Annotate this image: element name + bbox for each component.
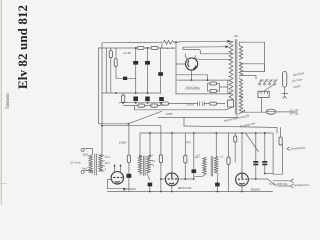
svg-text:Netzanschl.: Netzanschl. — [162, 47, 176, 50]
wire vertical x160.5 — [160, 48, 162, 93]
tube V4 grid dashes — [238, 178, 247, 180]
drop x265 — [264, 133, 266, 161]
wire R15 — [228, 133, 230, 192]
voltage selector taps — [260, 80, 278, 83]
tube V4 cathode arc — [239, 182, 244, 185]
capacitor C1 series — [123, 77, 127, 80]
wire B end riser — [158, 44, 162, 49]
terminal line 1 — [273, 180, 290, 182]
wire between boxes — [144, 47, 151, 49]
tube V2 grid dashes — [113, 177, 122, 179]
node dots — [184, 178, 186, 180]
transformer T4 winding bottom diag taps — [239, 97, 244, 115]
bus dots — [149, 191, 151, 193]
wire y94 line — [176, 93, 232, 95]
node dot — [147, 47, 149, 49]
transformer T2 left winding — [203, 158, 207, 174]
capacitor C12 pair b — [253, 164, 258, 166]
terminal line 2 — [278, 185, 291, 187]
tube pin left — [186, 54, 188, 60]
drop x216 — [215, 133, 217, 156]
resistor R12 x130 — [127, 155, 130, 163]
wire fuse line left — [242, 111, 266, 113]
bus left corner down — [139, 133, 141, 157]
capacitor C8 — [127, 174, 132, 178]
transformer T4 secondary winding mid — [239, 62, 243, 76]
wire tube3 anode line — [248, 178, 267, 180]
tube V2 pins up — [115, 165, 121, 172]
transformer T1 left winding — [138, 157, 142, 173]
svg-text:Fernh. 2000 Ohm: Fernh. 2000 Ohm — [268, 183, 288, 186]
wire arrow line to transformer — [180, 40, 231, 43]
Tin taps — [99, 155, 105, 171]
transformer T4 primary bottom lead — [226, 107, 233, 110]
wire left vertical V2 — [99, 43, 102, 155]
barretter lamp — [283, 72, 287, 88]
drop x172 — [171, 133, 173, 173]
wire secondary top tap — [239, 42, 264, 45]
wire diagonal V1 to heater line — [128, 111, 162, 124]
label under tube left — [123, 188, 125, 190]
T1 tap stubs — [150, 161, 153, 165]
svg-text:40/4: 40/4 — [105, 156, 111, 159]
wire vertical x106.3 — [105, 48, 107, 93]
wire line y126 — [184, 126, 277, 133]
wire C11 — [216, 186, 218, 191]
input terminal bottom — [81, 171, 92, 174]
wire R12 bottom with cap — [128, 163, 130, 192]
tube V4 output — [236, 173, 249, 186]
svg-text:1W1: 1W1 — [234, 35, 240, 38]
wire stubs R5 — [122, 93, 124, 95]
resistor R17 series on y103.5 — [162, 102, 169, 105]
tube V3 grid dashes — [168, 178, 177, 180]
tube V3 cathode drop — [171, 186, 173, 192]
capacitor C13 pair b — [262, 164, 267, 166]
transformer T4 primary winding — [229, 42, 233, 108]
transformer T4 primary top lead — [231, 41, 233, 43]
resistor R4 — [114, 59, 117, 67]
wire secondary taps to selector — [241, 63, 265, 65]
tube V3 cathode arc — [169, 182, 174, 185]
node dot — [175, 41, 177, 43]
drop x235 with resistor — [234, 133, 236, 162]
transformer Tin left winding — [89, 155, 92, 173]
page fold mark — [0, 182, 7, 184]
transformer T2 core — [211, 157, 213, 177]
capacitor C6 — [145, 97, 150, 102]
resistor R14 x185 — [184, 155, 187, 163]
T2 leads — [203, 156, 218, 182]
wire line y109.8 — [135, 106, 227, 110]
wire y80 line — [177, 79, 229, 81]
resistor R10 on y103.5 — [210, 102, 217, 105]
tube V1 rectifier — [186, 58, 198, 70]
wire vertical x147.5 — [147, 48, 149, 93]
svg-text:Lautsprecher: Lautsprecher — [293, 183, 310, 187]
wire vertical x116 with resistor — [115, 48, 117, 78]
capacitor C5 — [133, 97, 138, 102]
selector box — [258, 91, 269, 97]
input terminal top — [81, 149, 92, 155]
svg-text:1000: 1000 — [166, 112, 173, 116]
wire vertical to selector — [264, 42, 266, 71]
transformer Tin core — [95, 154, 97, 175]
winding section box — [228, 100, 234, 107]
T2 left loop wire — [195, 157, 203, 176]
wire loop right verticals — [265, 133, 283, 174]
capacitor C10 on x194 — [192, 169, 197, 173]
wire selector to fuse — [261, 98, 263, 113]
wire y126 left riser — [183, 118, 185, 126]
svg-text:(M): (M) — [83, 153, 88, 157]
wire R13 to tube2 — [161, 178, 165, 180]
svg-text:(se): (se) — [186, 140, 191, 144]
tube cathode drop — [191, 70, 193, 80]
transformer T1 core — [144, 156, 146, 176]
svg-text:REN904: REN904 — [123, 187, 136, 191]
transformer Tin right winding — [99, 155, 102, 171]
wire tap line y59 — [195, 58, 232, 59]
wire R16 top — [280, 128, 282, 138]
svg-text:1:1: 1:1 — [220, 155, 224, 159]
wire y103.5 link — [158, 104, 226, 106]
drop x193.8 — [193, 133, 195, 169]
svg-text:(160): (160) — [119, 141, 127, 145]
svg-text:5mF: 5mF — [82, 166, 88, 170]
wire tap y75 — [241, 76, 257, 80]
wire top line A — [102, 41, 164, 44]
wire between — [145, 105, 151, 107]
wire vertical x110.8 — [110, 48, 112, 93]
switch arm — [259, 85, 275, 95]
transformer T4 secondary winding lower — [239, 79, 243, 114]
arrowhead 2 — [225, 45, 229, 48]
wire vertical x135.7 — [135, 48, 137, 93]
resistor R13 x161 — [159, 155, 162, 163]
bus dots — [149, 132, 151, 134]
capacitor C12 pair — [253, 161, 258, 163]
box ticks — [261, 91, 268, 94]
pin arrowheads — [113, 164, 121, 166]
resistor R9 — [210, 90, 217, 93]
transformer T4 core — [235, 40, 237, 115]
svg-text:110 125 150: 110 125 150 — [260, 79, 277, 83]
wire y75 stub — [176, 75, 207, 80]
wire C9 — [149, 186, 151, 191]
tube V4 cathode drop — [241, 186, 243, 192]
tube left arm — [176, 63, 186, 65]
resistor R8 — [210, 82, 217, 85]
svg-text:Elv 82 und 812: Elv 82 und 812 — [15, 5, 30, 89]
drop x242 to tube3 — [241, 133, 243, 173]
resistor R2 box on line B — [151, 46, 158, 49]
capacitor C13 pair — [262, 161, 267, 163]
T1 leads — [140, 155, 150, 180]
tube V2 cathode arc — [115, 180, 120, 183]
node dots y80 — [191, 79, 193, 81]
wire horizontal y93 — [102, 92, 161, 94]
scan left edge line — [0, 0, 2, 205]
selector contacts — [259, 83, 276, 85]
wire series cap link y78 — [116, 77, 136, 79]
wire rounded link tube to tap — [183, 47, 232, 54]
electrode arcs — [188, 61, 196, 69]
arrowhead 1 — [227, 40, 231, 43]
resistor R3 small — [109, 51, 112, 58]
wire R13 bottom — [160, 163, 162, 192]
wire heater line y117.6 — [158, 114, 237, 118]
wire left vertical V1 — [98, 48, 128, 124]
wire tap y68 — [241, 64, 265, 72]
wire RC loop — [208, 80, 228, 94]
mains plug — [291, 110, 298, 115]
resistor fuse zigzag — [164, 40, 174, 44]
wire line B — [98, 47, 137, 49]
wire lamp bottom — [282, 87, 288, 99]
tube V3 anode wire interior — [171, 173, 173, 178]
capacitor pair small — [198, 102, 205, 106]
terminal 1 — [291, 179, 294, 183]
node dots — [255, 178, 257, 180]
wire line E y125.7 — [102, 126, 161, 133]
node dots on y93 — [115, 92, 117, 94]
drop x161 — [160, 133, 162, 155]
node — [160, 178, 162, 180]
terminal 2 — [291, 184, 294, 188]
ground bus y191.5 — [108, 191, 273, 193]
tube V4 anode wire interior — [241, 173, 243, 178]
transformer T4 secondary winding upper — [239, 46, 243, 60]
wire R16 adj — [281, 144, 283, 146]
resistor R11 — [234, 136, 237, 142]
node dots on line C — [122, 102, 124, 104]
terminal small zusatz — [287, 147, 290, 150]
tube V3 second stage — [165, 173, 178, 186]
wire caps down — [256, 165, 265, 179]
wire R14 bottom to tube — [178, 163, 194, 179]
svg-text:REN1104: REN1104 — [177, 186, 192, 190]
switch diagonal from bus — [246, 133, 259, 152]
wire fuse to plug — [276, 111, 291, 113]
fuse F1 — [266, 109, 276, 114]
svg-text:1:4: 1:4 — [149, 154, 153, 158]
resistor R6 — [138, 104, 145, 107]
resistor R16 x280.5 — [279, 137, 282, 145]
resistor R7 — [151, 104, 158, 107]
tube V2 first stage — [111, 172, 123, 184]
svg-text:50/50: 50/50 — [186, 102, 194, 106]
wire line D y105.6 — [123, 105, 138, 107]
capacitor C3 — [145, 61, 150, 65]
svg-text:40/4: 40/4 — [105, 162, 111, 165]
wire R12 top — [128, 124, 130, 155]
resistor R15 x229 — [227, 157, 230, 165]
wire D tail — [158, 105, 161, 107]
svg-text:RE604: RE604 — [250, 188, 261, 192]
transformer T2 right winding — [214, 157, 218, 173]
drop x256 — [255, 133, 257, 161]
capacitor C4 — [158, 72, 163, 76]
tube V2 cathode loop — [108, 180, 125, 192]
transformer T1 right winding — [147, 157, 151, 173]
capacitor C9 below T1 — [148, 183, 153, 187]
wire line C y102.8 — [119, 103, 163, 106]
capacitor C2 — [133, 61, 138, 65]
anode bus y133 — [140, 132, 273, 134]
capacitor C7 — [159, 97, 164, 101]
wire x194 below cap — [193, 173, 195, 179]
node V1-E — [101, 125, 103, 127]
wire vertical x176 — [175, 42, 177, 94]
capacitor C11 below T2 — [215, 183, 220, 187]
wire arrow line 2 — [183, 46, 228, 49]
tube pin right top — [195, 55, 196, 58]
node dot — [135, 47, 137, 49]
resistor R5 between y93 y103 — [122, 95, 125, 103]
wire A to arrow riser — [174, 41, 180, 44]
svg-text:Siemens: Siemens — [6, 93, 11, 109]
drop x185 — [184, 133, 186, 155]
svg-text:100 kOhm: 100 kOhm — [185, 87, 200, 91]
svg-text:2L=Grw: 2L=Grw — [70, 161, 82, 165]
switch to terminals — [267, 179, 276, 186]
resistor R1 box on line B — [137, 46, 144, 49]
drop x150 — [149, 133, 151, 156]
